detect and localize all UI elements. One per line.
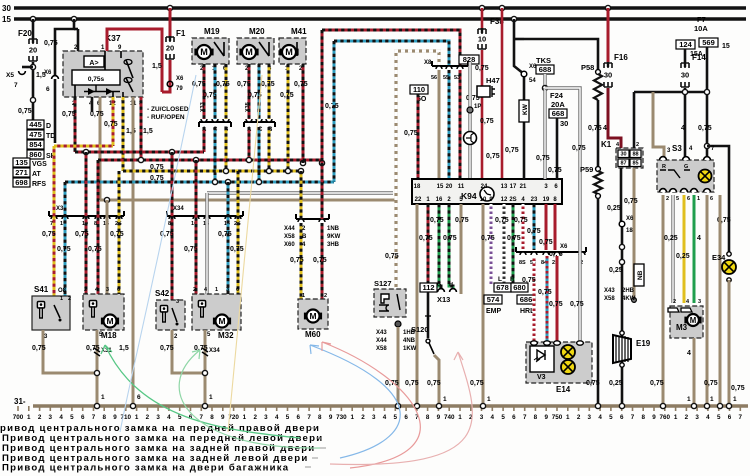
svg-text:12: 12 xyxy=(501,197,508,203)
code box 475 TD xyxy=(27,130,44,139)
code box 698 RFS xyxy=(13,178,30,187)
wire M32 pin2 red-black xyxy=(195,160,198,294)
svg-text:30: 30 xyxy=(681,71,689,80)
svg-text:9: 9 xyxy=(329,414,333,421)
resistor P58 xyxy=(581,63,594,72)
svg-text:B: B xyxy=(302,234,307,240)
svg-text:124: 124 xyxy=(679,40,692,49)
svg-text:0,75: 0,75 xyxy=(419,235,433,242)
wire natural right column xyxy=(719,195,722,406)
svg-text:VGS: VGS xyxy=(32,161,47,168)
wire F20 supply from bus 15 xyxy=(30,16,35,21)
wire X6 to E14 red xyxy=(556,256,559,342)
svg-text:M18: M18 xyxy=(101,331,117,340)
bus 30 xyxy=(14,6,746,10)
svg-text:0,75: 0,75 xyxy=(104,121,118,128)
S3 pins top xyxy=(660,157,667,160)
svg-text:3: 3 xyxy=(480,414,484,421)
relay K37 bottom pin numbers xyxy=(72,101,76,107)
svg-text:X44: X44 xyxy=(284,226,295,232)
K94 top pin numbers xyxy=(414,184,421,190)
svg-text:1: 1 xyxy=(302,293,305,299)
svg-text:X43: X43 xyxy=(604,288,615,294)
svg-text:6: 6 xyxy=(710,196,713,202)
label ZU CLOSED RUF OPEN xyxy=(147,106,189,113)
label F24 20A xyxy=(550,91,564,100)
svg-text:0,75: 0,75 xyxy=(430,217,444,224)
svg-text:3: 3 xyxy=(264,414,268,421)
M3 pins xyxy=(668,308,692,312)
connector X6 pin 6 xyxy=(52,76,59,79)
connector X31 lower xyxy=(94,348,100,356)
connector X6 ring 54 xyxy=(521,71,527,77)
svg-text:EMP: EMP xyxy=(486,308,502,315)
legend line 4 xyxy=(2,453,309,464)
svg-text:1: 1 xyxy=(733,396,737,403)
svg-text:5: 5 xyxy=(717,414,721,421)
svg-text:X34: X34 xyxy=(173,206,184,212)
svg-text:1HB: 1HB xyxy=(403,330,416,336)
svg-text:M20: M20 xyxy=(249,27,265,36)
svg-text:53: 53 xyxy=(454,75,460,81)
wire M41 pin1 yellow-black xyxy=(287,64,290,171)
svg-text:H: H xyxy=(449,282,453,288)
svg-text:0,75: 0,75 xyxy=(495,217,509,224)
svg-text:854: 854 xyxy=(29,140,42,149)
S3 interior contacts xyxy=(660,164,690,178)
svg-text:271: 271 xyxy=(15,168,28,177)
rail natural grey y193 xyxy=(207,191,393,194)
svg-text:X13: X13 xyxy=(437,295,450,304)
pointer sketch yellow to M20 xyxy=(228,75,262,432)
svg-text:M: M xyxy=(245,47,253,57)
svg-text:0,75: 0,75 xyxy=(57,246,71,253)
svg-text:0,75: 0,75 xyxy=(261,81,275,88)
S42 contact xyxy=(172,308,179,326)
svg-text:2: 2 xyxy=(68,296,71,302)
svg-text:2: 2 xyxy=(673,299,676,305)
svg-text:F7: F7 xyxy=(697,15,706,24)
svg-text:15: 15 xyxy=(722,43,730,50)
svg-text:5: 5 xyxy=(286,414,290,421)
wire K37 pin2 output red-black xyxy=(74,97,77,152)
svg-text:5: 5 xyxy=(609,414,613,421)
svg-text:3: 3 xyxy=(588,414,592,421)
svg-text:20: 20 xyxy=(166,44,174,53)
svg-text:M19: M19 xyxy=(204,27,220,36)
svg-text:X6: X6 xyxy=(560,244,568,250)
svg-text:4: 4 xyxy=(598,414,602,421)
wire K94 pin16 green-black to X13 xyxy=(439,204,441,289)
M32 key symbol xyxy=(198,301,205,318)
rail y92 from 569 column xyxy=(634,91,707,94)
svg-text:2: 2 xyxy=(577,414,581,421)
lamp E34 xyxy=(712,253,726,262)
label F7 10A xyxy=(697,15,706,24)
rail red-black y152 xyxy=(75,151,204,154)
svg-text:8: 8 xyxy=(426,414,430,421)
svg-text:730: 730 xyxy=(336,414,347,421)
svg-text:860: 860 xyxy=(29,150,42,159)
svg-text:9KW: 9KW xyxy=(327,234,341,240)
connector X6 ring 18 xyxy=(619,221,625,227)
motor actuator M19 box xyxy=(192,38,229,64)
svg-text:1: 1 xyxy=(566,414,570,421)
pointer curve red to S127 xyxy=(330,352,472,464)
svg-text:2: 2 xyxy=(324,293,327,299)
code box NB xyxy=(634,264,644,286)
E14 top pin lugs xyxy=(531,341,538,345)
svg-text:5: 5 xyxy=(394,414,398,421)
svg-text:F14: F14 xyxy=(692,53,706,62)
svg-text:X58: X58 xyxy=(376,346,387,352)
wire K94 pin4 red-white to X6 xyxy=(522,204,525,250)
M19 pin numbers xyxy=(200,66,204,72)
svg-text:1: 1 xyxy=(458,414,462,421)
E14 bulb 2 xyxy=(561,360,575,374)
wire grey branch to E14 grey xyxy=(545,88,580,92)
relay K37 coil box xyxy=(72,70,120,85)
svg-text:X8: X8 xyxy=(424,60,432,66)
svg-text:7: 7 xyxy=(200,414,204,421)
label box 828 xyxy=(459,55,479,64)
label box 569 15 xyxy=(699,38,718,47)
wire M18 pin6 yellow-black xyxy=(118,171,121,294)
svg-text:4: 4 xyxy=(275,414,279,421)
svg-text:X34: X34 xyxy=(209,348,220,354)
svg-text:0,75: 0,75 xyxy=(110,231,124,238)
svg-text:- ZU/CLOSED: - ZU/CLOSED xyxy=(147,106,189,113)
svg-text:6: 6 xyxy=(46,86,50,93)
svg-text:0,75: 0,75 xyxy=(527,228,541,235)
svg-text:0,75: 0,75 xyxy=(313,257,327,264)
svg-text:0,75: 0,75 xyxy=(237,81,251,88)
svg-text:V3: V3 xyxy=(537,374,546,381)
svg-text:M: M xyxy=(218,316,225,326)
svg-text:O8: O8 xyxy=(58,288,67,294)
svg-text:0,75: 0,75 xyxy=(548,167,562,174)
svg-text:1: 1 xyxy=(215,287,218,293)
wire S42 output natural xyxy=(172,330,205,373)
rail blue-black top y41 xyxy=(334,41,449,66)
legend line 2 xyxy=(2,433,323,444)
svg-text:0,75: 0,75 xyxy=(385,253,399,260)
wire M32 output natural xyxy=(204,330,207,406)
svg-text:AT: AT xyxy=(32,171,42,178)
svg-text:9: 9 xyxy=(437,414,441,421)
wire M19 B to junction rail xyxy=(225,127,228,171)
wire M18 pin3 natural xyxy=(106,200,109,294)
svg-text:4KW: 4KW xyxy=(622,296,636,302)
code box 860 SH xyxy=(27,150,44,159)
wire M19 C to junction rail xyxy=(214,127,217,182)
connector X35 bracket under M20 xyxy=(244,119,275,127)
rail yellow-black y171 xyxy=(123,170,301,173)
svg-text:22: 22 xyxy=(415,197,422,203)
svg-text:0,75: 0,75 xyxy=(481,235,495,242)
motor symbol xyxy=(279,45,298,59)
label box 686 HRL xyxy=(517,295,535,304)
svg-text:5: 5 xyxy=(501,414,505,421)
svg-text:7: 7 xyxy=(631,414,635,421)
svg-text:6: 6 xyxy=(512,414,516,421)
svg-text:2: 2 xyxy=(636,142,639,148)
wire K94 pin2 green-black to X13 xyxy=(449,204,453,289)
svg-text:0,75: 0,75 xyxy=(505,147,519,154)
svg-text:85: 85 xyxy=(632,161,638,167)
wire M32 pin6 yellow-black xyxy=(237,171,240,294)
light switch S3 box xyxy=(657,160,714,192)
svg-text:X58: X58 xyxy=(604,296,615,302)
bus 31 ground rail xyxy=(33,404,748,408)
svg-text:0,25: 0,25 xyxy=(664,235,678,242)
svg-text:3: 3 xyxy=(156,414,160,421)
svg-text:1: 1 xyxy=(135,414,139,421)
svg-text:X6: X6 xyxy=(626,216,634,222)
svg-text:8: 8 xyxy=(102,414,106,421)
svg-text:3: 3 xyxy=(698,299,701,305)
svg-text:6: 6 xyxy=(404,414,408,421)
svg-text:88: 88 xyxy=(632,152,638,158)
label box 112 xyxy=(420,283,437,292)
svg-text:0,75: 0,75 xyxy=(203,92,217,99)
M20 pin numbers xyxy=(245,66,249,72)
svg-text:112: 112 xyxy=(422,283,434,292)
connector X34 lower xyxy=(202,348,208,356)
label box 688 xyxy=(536,65,554,74)
wire M32 pin1 blue-black xyxy=(227,182,230,294)
svg-text:56: 56 xyxy=(431,75,437,81)
wire 112 to switch S120 xyxy=(427,292,430,338)
svg-text:K94: K94 xyxy=(461,191,477,201)
svg-text:31-: 31- xyxy=(14,397,26,406)
wire M19 A to junction rail xyxy=(203,127,206,152)
wire M20 pin2 red-black xyxy=(248,64,251,121)
wire S3 grey to M3 xyxy=(671,195,674,303)
svg-text:30: 30 xyxy=(604,71,612,80)
legend line 5 xyxy=(2,463,289,474)
svg-text:16: 16 xyxy=(436,197,443,203)
svg-text:30: 30 xyxy=(620,152,626,158)
wire X8-56 to K94 pin 15 natural xyxy=(438,70,441,179)
svg-text:E14: E14 xyxy=(556,385,571,394)
svg-text:7: 7 xyxy=(739,414,743,421)
svg-text:15: 15 xyxy=(2,15,11,24)
svg-text:X6: X6 xyxy=(176,76,184,82)
wire K37 pin12 output red-yellow xyxy=(112,97,115,146)
label box 678 680 xyxy=(494,283,511,292)
wire K37 pin4 stub xyxy=(91,97,94,112)
svg-text:79: 79 xyxy=(176,86,183,92)
wire S41 pin2 blue-black xyxy=(64,182,67,296)
wire F20 to connector X5 xyxy=(32,62,35,120)
bus 15 xyxy=(14,17,746,21)
svg-text:2: 2 xyxy=(193,287,196,293)
relay K37 diodes xyxy=(84,88,120,95)
svg-text:0,75: 0,75 xyxy=(18,108,32,115)
svg-text:0,75: 0,75 xyxy=(62,111,76,118)
svg-text:X44: X44 xyxy=(376,338,387,344)
svg-text:M: M xyxy=(309,311,316,321)
svg-text:9: 9 xyxy=(113,414,117,421)
actuator switch arms M19 xyxy=(214,42,224,56)
svg-text:0,75: 0,75 xyxy=(455,217,469,224)
svg-text:M: M xyxy=(690,316,697,325)
svg-text:6: 6 xyxy=(728,414,732,421)
wire X6 to E14 blue-red xyxy=(546,256,549,342)
label box 124 15A xyxy=(676,40,695,49)
svg-text:9: 9 xyxy=(652,414,656,421)
svg-text:0,75: 0,75 xyxy=(160,345,174,352)
svg-text:1: 1 xyxy=(350,414,354,421)
svg-text:1: 1 xyxy=(27,414,31,421)
M18 motor symbol xyxy=(101,315,119,328)
svg-text:678: 678 xyxy=(496,283,509,292)
wire K37 pin6 output natural xyxy=(99,97,102,200)
wire E34 to ground bus xyxy=(728,280,731,406)
S41 contact xyxy=(54,305,62,322)
svg-text:7: 7 xyxy=(14,82,18,89)
svg-text:P59: P59 xyxy=(580,165,593,174)
svg-text:8: 8 xyxy=(210,414,214,421)
connector X33 bracket under M19 xyxy=(199,119,231,127)
svg-text:5: 5 xyxy=(676,196,679,202)
svg-text:1: 1 xyxy=(487,396,491,403)
wire M19 pin2 red-black xyxy=(203,64,206,121)
svg-text:1: 1 xyxy=(697,196,700,202)
svg-text:30: 30 xyxy=(2,4,11,13)
svg-text:54: 54 xyxy=(529,78,536,84)
wire M3 to ground bus xyxy=(693,338,696,406)
svg-text:M3: M3 xyxy=(676,323,688,332)
svg-text:4: 4 xyxy=(697,235,701,242)
wire S41 output natural xyxy=(43,330,97,373)
ground junction dots xyxy=(94,403,99,408)
wire K1 to E19 line black xyxy=(621,168,622,406)
connector X6 bracket xyxy=(516,247,586,255)
motor actuator M41 box xyxy=(279,38,306,64)
wire S41 pin1 red-yellow xyxy=(53,146,56,296)
rail natural-white striped to S127 riser xyxy=(396,51,439,289)
svg-text:1: 1 xyxy=(443,396,447,403)
svg-text:H47: H47 xyxy=(486,76,500,85)
svg-text:L: L xyxy=(498,276,502,283)
interior light E14 box xyxy=(526,342,592,383)
svg-text:10A: 10A xyxy=(694,24,708,33)
svg-text:4: 4 xyxy=(491,414,495,421)
svg-text:0,25: 0,25 xyxy=(676,253,690,260)
svg-text:0,75: 0,75 xyxy=(475,65,489,72)
pointer curve blue to M60 xyxy=(310,345,400,458)
svg-text:8: 8 xyxy=(641,414,645,421)
svg-text:G: G xyxy=(437,282,441,288)
svg-text:P58: P58 xyxy=(581,63,594,72)
svg-text:4NB: 4NB xyxy=(403,338,416,344)
wire K94 pin12 black-white to 680 xyxy=(503,204,506,284)
wire S3 green to M3 xyxy=(693,195,696,303)
wire K94 pin5 natural xyxy=(460,204,463,294)
wire S127 to ground bus xyxy=(397,327,400,406)
svg-text:3: 3 xyxy=(226,287,229,293)
wire X8-55 to K94 pin 20 blue-black xyxy=(448,70,451,179)
rail red-black y160 xyxy=(98,159,322,162)
relay K37 pin1 internal lead xyxy=(75,51,123,97)
svg-text:20A: 20A xyxy=(551,100,565,109)
wire M60 pin2 red-black xyxy=(321,163,324,219)
wire K1 output natural xyxy=(633,168,636,298)
fuse F14 xyxy=(684,49,687,62)
svg-text:4: 4 xyxy=(167,414,171,421)
X8 pin numbers xyxy=(431,75,437,81)
svg-text:4: 4 xyxy=(383,414,387,421)
svg-text:4: 4 xyxy=(59,414,63,421)
wire M18 pin4 red-black xyxy=(97,160,100,294)
svg-text:6: 6 xyxy=(297,414,301,421)
svg-text:2: 2 xyxy=(38,414,42,421)
wire K94 pin1 red-black to 112 xyxy=(427,204,430,283)
control unit K94 connector box xyxy=(412,179,562,204)
svg-text:X33: X33 xyxy=(200,102,206,112)
svg-text:0,25: 0,25 xyxy=(607,205,621,212)
svg-text:0,25: 0,25 xyxy=(609,380,623,387)
svg-text:23: 23 xyxy=(531,197,538,203)
motor M3 box xyxy=(670,306,703,338)
relay K1 box xyxy=(616,148,643,168)
svg-text:S41: S41 xyxy=(34,285,49,294)
svg-text:9: 9 xyxy=(544,414,548,421)
svg-text:2: 2 xyxy=(253,414,257,421)
rail blue-black y182 xyxy=(65,181,334,184)
svg-text:X6: X6 xyxy=(44,70,52,76)
M60 motor symbol xyxy=(304,310,322,323)
svg-text:M: M xyxy=(106,316,113,326)
relay K37 contact arms xyxy=(124,60,133,93)
code box 271 AT xyxy=(13,168,30,177)
svg-text:2: 2 xyxy=(361,414,365,421)
svg-text:13: 13 xyxy=(501,184,508,190)
svg-text:668: 668 xyxy=(552,109,565,118)
svg-text:17: 17 xyxy=(510,184,517,190)
motor actuator M20 box xyxy=(237,38,274,64)
riser blue-black to center xyxy=(333,41,336,182)
svg-text:0,75: 0,75 xyxy=(218,231,232,238)
resistor P59 xyxy=(580,165,593,174)
wire K37 pin7 output black-yellow xyxy=(122,97,125,171)
svg-text:445: 445 xyxy=(29,120,42,129)
svg-text:3: 3 xyxy=(106,287,109,293)
wire M18 output natural xyxy=(96,330,99,406)
svg-text:M41: M41 xyxy=(291,27,307,36)
wire K94 pin9 violet-white to 678 xyxy=(490,204,493,284)
svg-text:0,75: 0,75 xyxy=(514,217,528,224)
connector X13 pins G H xyxy=(438,289,445,292)
lamp module V3 box xyxy=(530,346,554,372)
connector X8 bracket xyxy=(432,61,468,69)
svg-text:0,75: 0,75 xyxy=(507,235,521,242)
svg-text:0,75: 0,75 xyxy=(470,380,484,387)
svg-text:0,75: 0,75 xyxy=(486,153,500,160)
svg-text:0,75: 0,75 xyxy=(75,231,89,238)
pointer sketch blue to M19 xyxy=(120,75,196,432)
svg-text:15: 15 xyxy=(437,184,444,190)
wire K94 pin22 natural to ground bus xyxy=(416,204,419,406)
wire M18 pin2 red-black xyxy=(85,152,88,294)
svg-text:RFS: RFS xyxy=(32,181,46,188)
wire TKS natural-grey split xyxy=(543,74,546,88)
label TKS xyxy=(536,56,551,65)
svg-text:- RUF/OPEN: - RUF/OPEN xyxy=(147,114,185,121)
legend line 1 xyxy=(0,423,320,434)
